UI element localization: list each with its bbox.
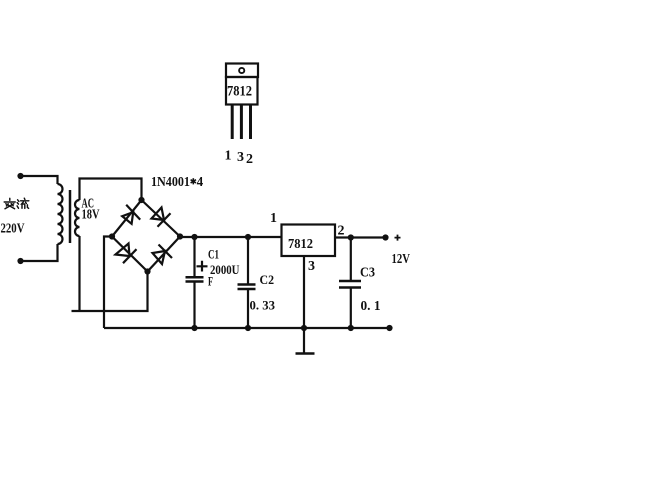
svg-text:F: F (208, 274, 213, 289)
capacitor C1 negative lead (193, 282, 195, 329)
svg-text:12V: 12V (392, 252, 411, 267)
ground rail end node (386, 325, 392, 331)
svg-text:7812: 7812 (227, 84, 252, 100)
diode D2 (152, 208, 171, 227)
regulator package mounting hole (239, 68, 244, 73)
wire primary top (21, 176, 58, 184)
wire primary bottom (21, 244, 58, 261)
capacitor C3 plates (339, 281, 361, 288)
svg-text:7812: 7812 (288, 237, 313, 252)
svg-text:3: 3 (237, 150, 244, 165)
primary terminal node top (17, 173, 23, 179)
svg-text:C2: C2 (260, 272, 275, 287)
svg-text:0. 1: 0. 1 (361, 299, 381, 314)
transformer core (69, 190, 72, 243)
svg-text:4: 4 (197, 175, 204, 190)
label 流 (AC chinese) (17, 198, 29, 208)
svg-text:1: 1 (225, 149, 232, 164)
node C1 bottom (191, 325, 197, 331)
svg-text:220V: 220V (1, 222, 25, 237)
wire secondary bottom (78, 236, 80, 311)
capacitor C1 positive lead (193, 237, 195, 276)
svg-text:1N4001: 1N4001 (151, 175, 190, 190)
diode D3 (116, 244, 137, 264)
wire secondary top to bridge top (80, 179, 142, 201)
node C3 top (348, 234, 354, 240)
capacitor C3 top lead (350, 238, 352, 282)
label plus (395, 235, 401, 241)
regulator U1 7812 box (282, 225, 336, 257)
svg-text:C1: C1 (208, 247, 219, 262)
wire ground rail (104, 327, 390, 329)
node C2 bottom (245, 325, 251, 331)
node bridge right (177, 233, 183, 239)
wire bottom ac link (72, 272, 148, 312)
pin leg 1 (231, 105, 234, 140)
node pin3 at rail (301, 325, 307, 331)
capacitor C2 plates (238, 285, 256, 290)
output terminal node (382, 234, 388, 240)
wire bridge left to ground rail (104, 237, 112, 329)
transformer T1 primary winding (58, 184, 63, 244)
bridge edge bottom-right (148, 237, 181, 272)
capacitor C1 plus sign (197, 261, 208, 272)
asterisk of 1N4001*4 (191, 178, 196, 184)
svg-text:3: 3 (308, 259, 315, 274)
svg-text:2000U: 2000U (210, 262, 240, 277)
capacitor C2 bottom lead (247, 289, 249, 328)
capacitor C2 top lead (247, 237, 249, 285)
pin leg 3 (240, 105, 243, 140)
diode D4 (153, 245, 173, 265)
primary terminal node bottom (17, 258, 23, 264)
pin leg 2 (249, 105, 252, 140)
svg-text:2: 2 (338, 224, 345, 239)
capacitor C1 plates (186, 277, 204, 281)
svg-text:1: 1 (270, 211, 277, 226)
wire regulator ground pin 3 (303, 256, 305, 354)
diode D1 (122, 205, 140, 224)
node C3 bottom (348, 325, 354, 331)
transformer T1 secondary winding (75, 200, 80, 236)
svg-text:C3: C3 (360, 266, 375, 281)
svg-text:18V: 18V (82, 208, 100, 223)
svg-text:0. 33: 0. 33 (250, 298, 276, 313)
node C1 top (191, 234, 197, 240)
wire regulator output (335, 236, 386, 238)
bridge edge top-left (112, 200, 142, 237)
wire positive rail (180, 236, 282, 238)
ground symbol (296, 352, 315, 355)
node bridge top (138, 197, 144, 203)
node C2 top (245, 234, 251, 240)
node bridge bottom (144, 268, 150, 274)
bridge edge bottom-left (112, 237, 148, 272)
regulator package U1 body (226, 77, 258, 105)
node bridge left (109, 233, 115, 239)
label 交 (AC chinese) (4, 198, 15, 208)
svg-text:2: 2 (246, 152, 253, 167)
capacitor C3 bottom lead (350, 288, 352, 329)
regulator package U1 tab (226, 64, 258, 78)
bridge edge top-right (142, 200, 181, 237)
